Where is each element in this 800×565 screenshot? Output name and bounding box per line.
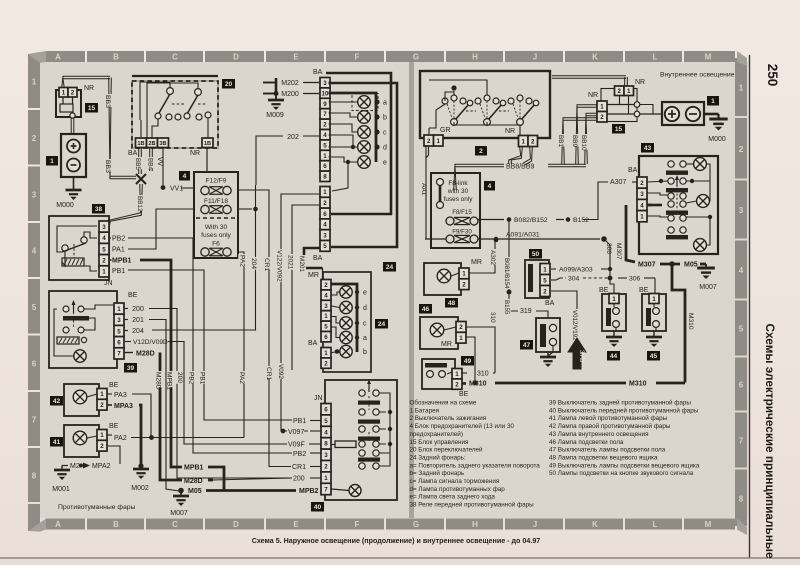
fuse box 4 right [431, 173, 480, 248]
interior lamp 43 box [639, 156, 718, 254]
fuse F6 [201, 248, 209, 256]
svg-text:VV1: VV1 [170, 186, 183, 193]
svg-text:2: 2 [323, 122, 327, 129]
switch 39 internals [63, 306, 69, 312]
wire B155 [509, 294, 518, 311]
corner bevels [28, 51, 46, 63]
svg-text:2: 2 [531, 138, 535, 145]
battery 1 left [61, 134, 86, 177]
svg-text:2: 2 [455, 381, 459, 388]
tag 43 [641, 143, 654, 153]
wire BB3 [110, 78, 136, 177]
svg-text:6: 6 [323, 163, 327, 170]
svg-text:A307: A307 [610, 179, 626, 186]
wire AA1 into fusebox [425, 145, 427, 239]
svg-text:24: 24 [378, 321, 386, 328]
svg-text:A099/A303: A099/A303 [559, 267, 593, 274]
svg-text:BB4: BB4 [147, 158, 154, 171]
svg-text:B: B [113, 53, 119, 62]
svg-text:PA2: PA2 [238, 372, 245, 384]
center gray divider [409, 62, 414, 518]
wire CR1 riser [238, 190, 294, 467]
svg-text:6: 6 [32, 359, 37, 368]
tag 49 [461, 356, 474, 366]
lamp 48 pins [459, 268, 469, 279]
svg-text:1B: 1B [204, 141, 211, 147]
tag 38 [92, 204, 105, 214]
svg-text:5: 5 [324, 324, 328, 331]
svg-text:B155: B155 [503, 300, 510, 315]
svg-text:3: 3 [324, 303, 328, 310]
lamp 24d fog lamp [358, 141, 371, 154]
switch 49 pins [452, 369, 462, 379]
svg-text:b: b [363, 349, 367, 356]
svg-text:8: 8 [324, 441, 328, 448]
svg-text:Схемы электрические принципиал: Схемы электрические принципиальные [763, 324, 777, 559]
svg-text:48: 48 [448, 300, 456, 307]
lamp 24b tail lamp [358, 111, 371, 124]
svg-text:1: 1 [323, 189, 327, 196]
relay 38 coil [62, 258, 84, 266]
svg-text:24 Задний фонарь:: 24 Задний фонарь: [410, 453, 466, 461]
svg-text:2B: 2B [148, 141, 155, 147]
svg-text:K: K [592, 520, 598, 529]
svg-text:M310: M310 [629, 381, 647, 388]
svg-text:4: 4 [324, 292, 328, 299]
svg-text:6: 6 [324, 407, 328, 414]
svg-text:4: 4 [183, 173, 187, 180]
svg-text:200: 200 [293, 476, 305, 483]
lamp 24d lower [340, 301, 352, 313]
svg-text:A091/A031: A091/A031 [506, 232, 540, 239]
svg-text:J: J [533, 53, 537, 62]
svg-text:8: 8 [739, 494, 744, 503]
svg-text:PB2: PB2 [188, 372, 195, 385]
svg-text:38 Реле передней противотуманн: 38 Реле передней противотуманной фары [410, 501, 535, 509]
tag 42 [50, 396, 63, 406]
svg-text:MPB2: MPB2 [299, 488, 319, 495]
svg-text:6: 6 [117, 340, 121, 347]
svg-text:319: 319 [520, 308, 532, 315]
svg-text:M28D: M28D [136, 351, 155, 358]
svg-text:6: 6 [324, 334, 328, 341]
svg-text:G: G [413, 53, 419, 62]
svg-text:2: 2 [32, 134, 37, 143]
svg-text:5: 5 [32, 303, 37, 312]
svg-text:45: 45 [650, 353, 658, 360]
svg-text:47: 47 [523, 342, 531, 349]
relay 38 internal wires [57, 226, 97, 252]
svg-text:7: 7 [739, 437, 744, 446]
svg-text:2: 2 [71, 90, 75, 97]
svg-text:F12/F9: F12/F9 [206, 178, 227, 185]
svg-text:1: 1 [117, 306, 121, 313]
svg-text:NR: NR [84, 85, 94, 92]
svg-text:BA: BA [313, 69, 323, 76]
wire 2021 riser [292, 205, 320, 370]
svg-text:1: 1 [324, 475, 328, 482]
node VV1 [161, 185, 166, 190]
lamp 24e lower [340, 286, 352, 298]
svg-text:M: M [705, 53, 712, 62]
svg-text:43: 43 [644, 145, 652, 152]
svg-text:8: 8 [32, 472, 37, 481]
wire from 1B to fuse box [206, 148, 208, 173]
svg-text:G: G [413, 520, 419, 529]
svg-text:39 Выключатель задней противот: 39 Выключатель задней противотуманной фа… [549, 399, 691, 407]
svg-text:F8/F15: F8/F15 [452, 209, 472, 216]
switch 40 box [325, 380, 397, 500]
svg-text:M307: M307 [615, 243, 622, 260]
wire M307 bold from 43 [647, 204, 652, 207]
svg-text:c: c [383, 130, 387, 137]
svg-text:1: 1 [739, 84, 744, 93]
tag 46 [419, 304, 432, 314]
svg-text:2: 2 [100, 443, 104, 450]
svg-text:J: J [533, 520, 537, 529]
svg-text:15: 15 [88, 105, 96, 112]
control unit 15 right pins [597, 101, 607, 112]
svg-text:BE: BE [459, 391, 469, 398]
svg-text:1: 1 [32, 78, 37, 87]
svg-text:7: 7 [323, 111, 327, 118]
lamp 24e reverse lamp [358, 156, 371, 169]
svg-text:d= Лампа противотуманных фар: d= Лампа противотуманных фар [410, 486, 506, 493]
svg-text:b= Задний фонарь: b= Задний фонарь [410, 469, 465, 477]
svg-text:e: e [363, 290, 367, 297]
tag 24 lower [375, 319, 388, 329]
svg-text:MR: MR [471, 259, 482, 266]
svg-text:GR: GR [440, 127, 451, 134]
svg-text:NR: NR [505, 128, 515, 135]
svg-text:2: 2 [323, 200, 327, 207]
tag 39 [124, 363, 137, 373]
svg-text:3: 3 [32, 190, 37, 199]
tail lamp 24 lower box [323, 272, 371, 372]
svg-text:BA: BA [313, 255, 323, 262]
tag 1 right [707, 96, 719, 106]
svg-text:c= Лампа сигнала торможения: c= Лампа сигнала торможения [410, 478, 500, 485]
svg-text:5: 5 [324, 418, 328, 425]
svg-text:24: 24 [386, 264, 394, 271]
svg-text:5: 5 [117, 328, 121, 335]
svg-text:A: A [55, 53, 61, 62]
wire MPA2 [108, 446, 121, 464]
svg-text:5: 5 [102, 246, 106, 253]
lamp 24c brake lamp [358, 126, 371, 139]
wire A302 riser [470, 241, 496, 273]
svg-text:B081/B154: B081/B154 [503, 258, 510, 289]
svg-text:15 Блок управления: 15 Блок управления [410, 439, 469, 446]
lamp 46 pins [456, 322, 466, 333]
svg-text:4 Блок предохранителей (13 или: 4 Блок предохранителей (13 или 30 [410, 422, 515, 430]
svg-text:V09F: V09F [288, 442, 305, 449]
ground 44 [613, 331, 615, 336]
connector pins 2/1 left below ignition [424, 135, 434, 146]
switch 47 box [536, 318, 560, 352]
svg-text:c: c [363, 321, 367, 328]
wire V122/V092 riser [281, 194, 320, 431]
svg-text:V097: V097 [288, 429, 304, 436]
svg-text:F9/F30: F9/F30 [452, 229, 472, 236]
svg-text:D: D [233, 53, 239, 62]
svg-text:1: 1 [612, 296, 616, 303]
right coordinate band numbers 1-8 [735, 58, 747, 116]
svg-text:A: A [55, 520, 61, 529]
svg-text:NR: NR [190, 150, 200, 157]
ground M007 right [705, 264, 707, 268]
tag 15 right [612, 124, 625, 134]
wire M202 [275, 78, 278, 95]
svg-text:B: B [113, 520, 119, 529]
connector pin 1B right [202, 138, 213, 148]
svg-text:F6: F6 [212, 241, 220, 248]
svg-text:47 Выключатель лампы подсветки: 47 Выключатель лампы подсветки пола [549, 447, 666, 454]
tail lamp bar lower [332, 284, 358, 352]
svg-text:50 Лампы подсветки на кнопке з: 50 Лампы подсветки на кнопке звукового с… [549, 470, 694, 477]
svg-text:PA3: PA3 [114, 392, 127, 399]
svg-text:CR1: CR1 [292, 464, 306, 471]
svg-text:BB1: BB1 [557, 135, 564, 148]
svg-text:1: 1 [640, 214, 644, 221]
switch block 20 internals [167, 88, 174, 95]
svg-text:BB9: BB9 [571, 135, 578, 148]
svg-text:D: D [233, 520, 239, 529]
svg-text:CR1: CR1 [263, 258, 270, 272]
svg-text:K: K [592, 53, 598, 62]
svg-text:предохранителей): предохранителей) [410, 430, 463, 438]
svg-text:a: a [383, 100, 387, 107]
lamp 24a lower [340, 331, 352, 343]
svg-text:F11/F18: F11/F18 [204, 198, 228, 205]
tag 4 right [484, 181, 495, 191]
svg-text:3: 3 [324, 452, 328, 459]
tag 20 [222, 79, 235, 89]
wire V012/V192 [551, 291, 577, 340]
svg-text:3B: 3B [159, 141, 166, 147]
svg-text:2: 2 [618, 88, 622, 95]
svg-text:2: 2 [459, 324, 463, 331]
wire 300 riser [604, 239, 610, 278]
svg-text:2: 2 [324, 360, 328, 367]
ground M000 right [704, 113, 719, 116]
svg-text:PA2: PA2 [114, 435, 127, 442]
fuse F8/F15 [446, 217, 454, 225]
svg-text:41: 41 [53, 439, 61, 446]
svg-text:1: 1 [437, 138, 441, 145]
svg-text:3/A3: 3/A3 [578, 350, 584, 363]
svg-text:310: 310 [489, 312, 496, 323]
tag 45 [647, 351, 660, 361]
svg-text:M007: M007 [170, 510, 188, 517]
wire VV [156, 156, 165, 165]
svg-text:10: 10 [322, 90, 329, 97]
svg-text:20 Блок переключателей: 20 Блок переключателей [410, 446, 483, 454]
svg-text:1: 1 [324, 313, 328, 320]
svg-text:d: d [363, 305, 367, 312]
svg-text:304: 304 [568, 276, 580, 283]
svg-text:MPA3: MPA3 [114, 403, 133, 410]
svg-text:4: 4 [739, 266, 744, 275]
tag 15 [85, 103, 98, 113]
svg-text:PB2: PB2 [112, 236, 125, 243]
svg-text:8: 8 [323, 174, 327, 181]
svg-text:PB1: PB1 [199, 372, 206, 385]
fuse link symbol [437, 179, 444, 186]
tag 50 [529, 249, 542, 259]
wire M310 riser bold [672, 264, 685, 383]
ground 47 [547, 352, 549, 356]
svg-text:BE: BE [109, 382, 119, 389]
svg-text:250: 250 [765, 64, 780, 87]
wire 204 riser [238, 208, 252, 210]
svg-text:C: C [172, 53, 178, 62]
svg-text:M009: M009 [266, 112, 284, 119]
svg-text:2: 2 [102, 258, 106, 265]
switch 49 box [422, 359, 455, 389]
svg-text:H: H [472, 53, 478, 62]
tag 41 [50, 437, 63, 447]
wire AA1 [426, 147, 429, 159]
tag 4 [179, 171, 190, 181]
svg-text:Схема 5. Наружное освещение (п: Схема 5. Наружное освещение (продолжение… [252, 537, 541, 545]
svg-text:3: 3 [640, 191, 644, 198]
wire 46 to M310 [467, 337, 476, 383]
svg-text:MPB1: MPB1 [184, 465, 204, 472]
svg-text:NR: NR [635, 79, 645, 86]
wire to battery right [640, 113, 662, 115]
svg-text:2 Выключатель зажигания: 2 Выключатель зажигания [410, 415, 487, 422]
svg-text:40: 40 [314, 504, 322, 511]
svg-text:300: 300 [605, 243, 612, 254]
svg-text:MR: MR [441, 341, 452, 348]
relay 38 box [49, 216, 109, 280]
fog lamp 41 box [64, 425, 99, 457]
svg-text:49: 49 [464, 358, 472, 365]
svg-text:4: 4 [488, 183, 492, 190]
svg-text:5: 5 [543, 277, 547, 284]
fog lamp 42 box [64, 384, 99, 416]
control unit 15 right wires [634, 102, 640, 108]
svg-text:M002: M002 [131, 485, 149, 492]
wire 304/306 bus [551, 279, 556, 281]
left coordinate band numbers 1-8 [28, 54, 40, 108]
svg-text:MR: MR [308, 272, 319, 279]
svg-text:1B: 1B [137, 141, 144, 147]
tag 2 [475, 146, 487, 156]
svg-text:fuses only: fuses only [201, 232, 231, 239]
connector pins 1B 2B 3B [136, 138, 147, 148]
svg-text:1: 1 [100, 391, 104, 398]
svg-text:1: 1 [102, 269, 106, 276]
switch 40 resistor [335, 441, 356, 448]
svg-text:6: 6 [739, 381, 744, 390]
svg-text:200: 200 [176, 372, 183, 383]
svg-text:BB5: BB5 [134, 158, 141, 171]
ignition switch 2 internals [451, 85, 456, 90]
svg-text:VV: VV [156, 157, 163, 167]
tag 48 [445, 298, 458, 308]
wire 310 to 49 [462, 372, 468, 374]
svg-text:B082/B152: B082/B152 [514, 217, 548, 224]
connector 15 left [56, 90, 81, 117]
svg-text:BB12: BB12 [136, 196, 143, 212]
wire M310 bus [462, 382, 467, 385]
svg-text:3: 3 [323, 232, 327, 239]
switch 39 internal wires [54, 309, 74, 356]
svg-text:201: 201 [132, 317, 144, 324]
wire A099/A303 [551, 268, 556, 270]
svg-text:BB3: BB3 [104, 95, 111, 108]
svg-text:15: 15 [615, 126, 623, 133]
switch 40 labels [292, 417, 305, 426]
svg-text:9: 9 [323, 101, 327, 108]
ground M009 [274, 91, 279, 96]
svg-text:M2: M2 [70, 463, 80, 470]
wire BB10 riser [585, 113, 597, 164]
ground M001 [62, 465, 68, 467]
svg-text:L: L [653, 520, 658, 529]
svg-text:BA: BA [545, 300, 555, 307]
svg-text:E: E [293, 53, 299, 62]
svg-text:4: 4 [324, 429, 328, 436]
tag 47 [520, 340, 533, 350]
svg-text:2: 2 [479, 148, 483, 155]
svg-text:43 Лампа внутреннего освещения: 43 Лампа внутреннего освещения [549, 431, 649, 438]
svg-text:4: 4 [32, 247, 37, 256]
diagram inner panel [40, 62, 737, 518]
svg-text:1: 1 [100, 432, 104, 439]
svg-text:CR1: CR1 [265, 367, 272, 381]
svg-text:M310: M310 [469, 381, 487, 388]
svg-text:7: 7 [324, 486, 328, 493]
svg-text:V12D/V09D: V12D/V09D [133, 339, 168, 346]
svg-text:200: 200 [132, 306, 144, 313]
svg-text:4: 4 [323, 132, 327, 139]
svg-text:a= Повторитель заднего указате: a= Повторитель заднего указателя поворот… [410, 462, 541, 469]
fuse F9/F30 [446, 235, 454, 243]
svg-text:6: 6 [323, 211, 327, 218]
wire BB4 [151, 148, 153, 171]
lamp 24b lower [340, 345, 352, 357]
page bottom edge rule [0, 557, 800, 559]
svg-text:1: 1 [627, 88, 631, 95]
svg-text:M000: M000 [708, 136, 726, 143]
battery 1 right [662, 102, 704, 125]
svg-text:39: 39 [127, 365, 135, 372]
svg-text:7: 7 [32, 416, 37, 425]
svg-text:PA2: PA2 [239, 255, 246, 267]
svg-text:NR: NR [588, 92, 598, 99]
svg-text:44: 44 [610, 353, 618, 360]
fuse box divider [196, 217, 236, 219]
svg-text:3: 3 [739, 206, 744, 215]
svg-text:M28D: M28D [155, 372, 162, 390]
svg-text:e: e [383, 160, 387, 167]
svg-text:2: 2 [600, 114, 604, 121]
svg-text:1 Батарея: 1 Батарея [410, 407, 439, 414]
svg-text:M000: M000 [56, 202, 74, 209]
wire BB12 [109, 184, 142, 226]
switch 40 connector pins [321, 404, 331, 415]
svg-text:1: 1 [522, 138, 526, 145]
svg-text:BB10: BB10 [580, 135, 587, 151]
svg-text:M001: M001 [52, 486, 70, 493]
svg-text:1: 1 [543, 266, 547, 273]
svg-text:fuses only: fuses only [444, 196, 474, 203]
ignition switch 2 box [420, 71, 550, 138]
wire BB5 [140, 148, 142, 174]
